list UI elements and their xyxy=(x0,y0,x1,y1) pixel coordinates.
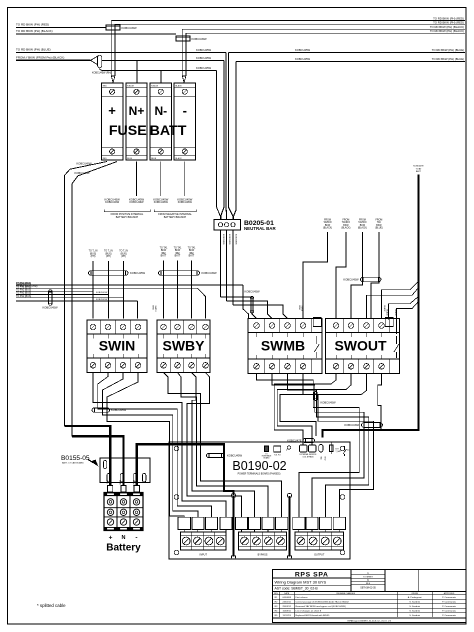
svg-text:SWIN: SWIN xyxy=(99,338,136,354)
svg-text:TO RD BKW (PH) (BLUE): TO RD BKW (PH) (BLUE) xyxy=(16,48,51,52)
wires TO T_IN down to SWIN poles 1-3 xyxy=(92,261,94,319)
svg-text:(BLUE): (BLUE) xyxy=(375,228,383,230)
svg-text:(BUS): (BUS) xyxy=(90,253,96,255)
wire SWOUT pole4 jog down to thick line xyxy=(378,374,382,430)
svg-text:KOBCU45W: KOBCU45W xyxy=(196,66,212,70)
svg-text:KOBCU45W: KOBCU45W xyxy=(295,48,311,52)
svg-text:BLACK: BLACK xyxy=(175,84,182,87)
taper into FUSE - terminal xyxy=(182,76,186,83)
title block outline xyxy=(273,570,467,623)
contactor SWIN body xyxy=(87,320,147,373)
svg-text:First release: First release xyxy=(296,596,309,599)
wire SWOUT pole1 to bypass coil box 1 xyxy=(274,374,336,446)
svg-text:TO AT: TO AT xyxy=(416,167,423,170)
svg-text:TO RD BKW (PH) (BLACK): TO RD BKW (PH) (BLACK) xyxy=(16,29,53,33)
svg-text:KOBCU45W: KOBCU45W xyxy=(295,57,311,61)
svg-text:OUTPUT: OUTPUT xyxy=(314,554,325,557)
wire TAVIDO 2 to SWOUT pole 1 xyxy=(336,232,346,319)
svg-text:BLUE: BLUE xyxy=(151,158,157,160)
wire blue upper corner down to neutral bar xyxy=(225,52,228,219)
svg-text:KOBCU45W: KOBCU45W xyxy=(196,56,212,60)
terminal strip INPUT xyxy=(181,532,227,550)
svg-text:TO TA1: TO TA1 xyxy=(160,247,169,250)
bracket FROM POSITIVE INTERNAL BATTERY BRANCH xyxy=(104,210,150,212)
svg-text:TO RD BKW (PH) (BLACK): TO RD BKW (PH) (BLACK) xyxy=(430,29,464,33)
wire SWIN pole1 to INPUT square 4 xyxy=(93,373,226,518)
taper into FUSE + terminal xyxy=(111,76,115,83)
svg-text:N: N xyxy=(122,535,126,541)
title block header cell lines xyxy=(350,570,352,592)
wire SWOUT pole2 to bypass coil box 2 xyxy=(277,374,351,446)
wire SWBY pole1 to BYPASS square 4 xyxy=(164,373,282,518)
splice taper KOBCU45W on FROM BKW wire xyxy=(91,56,98,64)
terminal strip BYPASS xyxy=(239,532,287,550)
aux contact symbol inside SWMB xyxy=(314,336,319,358)
board B0155 outline xyxy=(100,458,150,483)
thick wire battery negative from board xyxy=(137,444,234,495)
svg-text:FUSE: FUSE xyxy=(109,123,147,139)
svg-text:BKW: BKW xyxy=(376,225,382,227)
svg-text:(RE): (RE) xyxy=(161,253,166,255)
wire black pair top run to right border xyxy=(182,28,465,30)
connector KOBCU45W box on red pair xyxy=(106,25,120,30)
svg-text:BLUE: BLUE xyxy=(119,480,121,486)
svg-text:I:\SPA\Diagrams\SBMST_30_02-B.: I:\SPA\Diagrams\SBMST_30_02-B.vsd - shee… xyxy=(347,620,391,623)
svg-text:BATTERY BRANCH: BATTERY BRANCH xyxy=(116,216,139,219)
svg-text:S. Sandrini: S. Sandrini xyxy=(409,605,420,608)
wire SWMB pole4 staircase to OUTPUT square 4 xyxy=(303,374,373,518)
wire SWOUT pole3 into board top xyxy=(280,374,366,437)
components external service coil bypass xyxy=(300,445,308,452)
svg-text:TAVIDO: TAVIDO xyxy=(342,221,350,224)
svg-text:KOBCU45W: KOBCU45W xyxy=(222,234,224,245)
wire SWIN pole4 to INPUT square 1 xyxy=(107,373,184,518)
wire SWMB pole2 staircase to OUTPUT square 2 xyxy=(272,374,364,518)
contactor SWOUT body xyxy=(326,319,400,374)
svg-text:TO RD BKW (PH) (BLUE): TO RD BKW (PH) (BLUE) xyxy=(432,48,464,52)
revision table xyxy=(273,592,467,619)
svg-text:R.S. P.V.: R.S. P.V. xyxy=(274,455,281,457)
svg-text:KOBCU45W: KOBCU45W xyxy=(321,400,337,404)
svg-text:KOBCU46W: KOBCU46W xyxy=(154,201,169,204)
thick bus bar left on board xyxy=(232,496,234,557)
svg-text:BLACK: BLACK xyxy=(175,157,182,160)
svg-text:B0155-05: B0155-05 xyxy=(61,455,90,462)
svg-text:KOBCU45W: KOBCU45W xyxy=(96,299,107,301)
svg-text:(BLACK): (BLACK) xyxy=(341,227,350,230)
svg-text:TAVIDO: TAVIDO xyxy=(358,221,366,224)
connector KOBCU45W vertical on SWMB feed xyxy=(250,297,253,314)
wire TO RD BKW blue bus upper xyxy=(16,51,226,53)
wire tap from KOB0007E to SWOUT pole 4 xyxy=(382,282,419,319)
svg-text:KOBCU45W: KOBCU45W xyxy=(227,454,243,458)
svg-text:TAV: TAV xyxy=(377,221,382,224)
connector KOBCU45W horizontal on T_IN wires xyxy=(89,271,129,276)
svg-text:P. Cammarota: P. Cammarota xyxy=(442,614,457,617)
svg-text:BATT. CT CAR BOARD: BATT. CT CAR BOARD xyxy=(62,462,84,465)
terminal group BYPASS squares xyxy=(235,517,287,529)
battery terminal block 3x3 xyxy=(104,493,143,531)
svg-text:KOBCU45W (RH): KOBCU45W (RH) xyxy=(92,71,111,74)
wire blue right segment upper xyxy=(229,51,466,53)
svg-text:KOBCU46W: KOBCU46W xyxy=(105,201,120,204)
svg-text:P. Cammarota: P. Cammarota xyxy=(442,601,457,604)
svg-text:15/11/13: 15/11/13 xyxy=(283,615,292,617)
wires TO TA1 branch down to SWBY xyxy=(163,261,165,319)
svg-text:BATT: BATT xyxy=(161,255,167,258)
connector KOBCU45W box on black pair xyxy=(176,36,190,41)
svg-text:BKW: BKW xyxy=(323,457,325,461)
wire SWMB pole3 staircase to OUTPUT square 3 xyxy=(288,374,369,518)
wire SWMB pole1 staircase to OUTPUT square 1 xyxy=(257,374,360,518)
svg-text:BKW: BKW xyxy=(325,225,331,227)
svg-text:KOBCU45W: KOBCU45W xyxy=(122,26,138,30)
svg-text:B0190-02: B0190-02 xyxy=(232,459,286,473)
svg-text:P. Cammarota: P. Cammarota xyxy=(442,596,457,599)
svg-text:FROM: FROM xyxy=(359,220,366,222)
fuse F3 (N-) body xyxy=(150,83,172,160)
svg-text:T_BAT: T_BAT xyxy=(336,450,341,453)
wire tap from KOB0007E to SWOUT aux rect xyxy=(388,296,418,319)
fuse F1 (+) body xyxy=(102,83,123,160)
svg-text:Wiring Diagram MST 30 BYS: Wiring Diagram MST 30 BYS xyxy=(275,580,327,585)
wire from F3 bottom down xyxy=(160,162,162,197)
wire pair black vertical to FUSE - block xyxy=(181,29,183,76)
svg-text:BKW: BKW xyxy=(343,225,349,227)
bus wire 6 corner down to SWIN pole 4 xyxy=(136,301,138,319)
aux contact symbol inside SWOUT xyxy=(394,336,399,358)
svg-text:TO T_IN: TO T_IN xyxy=(119,251,128,253)
svg-text:BOARD: BOARD xyxy=(263,457,270,460)
revision rows text xyxy=(275,596,457,617)
B0155 pins bottom xyxy=(107,474,110,483)
wire SWBY pole2 to BYPASS square 3 xyxy=(178,373,269,518)
svg-text:KOBCU45W: KOBCU45W xyxy=(202,271,218,275)
svg-text:(RE): (RE) xyxy=(175,253,180,255)
wires below neutral bar with rotated labels xyxy=(220,230,222,297)
svg-text:4,5: 4,5 xyxy=(347,449,349,451)
svg-text:Correct passage of (KOBCU45W): Correct passage of (KOBCU45W) diode TA1 … xyxy=(296,601,350,604)
terminal strip OUTPUT xyxy=(295,532,344,550)
svg-text:S. Sandrini: S. Sandrini xyxy=(409,610,420,613)
svg-text:NEUTRAL BAR: NEUTRAL BAR xyxy=(244,226,276,231)
svg-text:SBT-0M-02-05: SBT-0M-02-05 xyxy=(360,587,376,590)
svg-text:FILE: FILE xyxy=(366,583,371,585)
wire tap from KOB0007E to aux contact xyxy=(396,302,418,335)
wire N- fuse feed xyxy=(160,70,162,83)
wire blue right segment down to neutral bar xyxy=(229,52,233,219)
svg-text:KOBCU45W: KOBCU45W xyxy=(111,408,127,412)
board component key symbol xyxy=(287,446,290,449)
svg-text:KOBCU45W: KOBCU45W xyxy=(130,271,146,275)
wire pair red vertical to FUSE + block xyxy=(110,21,112,77)
svg-text:-: - xyxy=(183,103,187,118)
connector KOBCU45W vertical on left bus xyxy=(49,290,52,306)
aux terminal rect on SWMB top xyxy=(313,318,321,327)
svg-text:KOBCU45W: KOBCU45W xyxy=(235,234,237,245)
svg-text:TO RD BKW (PH) (RED): TO RD BKW (PH) (RED) xyxy=(433,20,464,24)
svg-text:RED: RED xyxy=(103,158,108,160)
svg-text:BKW: BKW xyxy=(189,250,195,252)
wire N- feed down to neutral bar xyxy=(217,70,221,219)
svg-text:RELEASE CHANGES: RELEASE CHANGES xyxy=(336,592,355,595)
svg-text:TO RD BKW (PH) (RED): TO RD BKW (PH) (RED) xyxy=(16,23,49,27)
svg-text:-: - xyxy=(135,535,137,542)
wire SWIN pole2 to INPUT square 3 xyxy=(98,373,212,518)
svg-text:(BUS): (BUS) xyxy=(120,253,126,255)
svg-text:FROM // BKW (FROM Pw) (BLACK): FROM // BKW (FROM Pw) (BLACK) xyxy=(16,56,64,60)
wire blue right segment lower xyxy=(236,61,465,63)
bus wire 1 to SWMB pole 1 (crossing) xyxy=(243,285,249,319)
contactor SWMB body xyxy=(248,319,322,374)
svg-text:BLACK: BLACK xyxy=(132,480,135,487)
thick wire battery positive corner xyxy=(64,426,110,486)
svg-text:KOBCU45W: KOBCU45W xyxy=(343,278,359,282)
svg-text:KOBCU45W: KOBCU45W xyxy=(42,305,58,309)
connector KOBCU45W across board feed verticals xyxy=(362,423,383,428)
svg-text:SWMB: SWMB xyxy=(301,306,303,312)
wire from F1 bottom to left vertical B xyxy=(72,162,117,437)
svg-text:KOBCU45W: KOBCU45W xyxy=(76,161,92,165)
wire N- branch from splice xyxy=(100,68,161,71)
svg-text:Replaced B0155 board with B055: Replaced B0155 board with B0555 xyxy=(296,614,331,617)
svg-text:BLACK: BLACK xyxy=(383,306,386,313)
svg-text:BKW: BKW xyxy=(360,225,366,227)
fuse F2 (N+) body xyxy=(126,83,147,160)
staircase from neutral bar to SWMB terminals xyxy=(221,297,257,319)
splice connector vertical oval xyxy=(98,55,102,68)
svg-text:KOBCU45W: KOBCU45W xyxy=(244,290,260,294)
svg-text:(PH): (PH) xyxy=(106,256,111,258)
connector KOBCU45W horizontal on TAV wires xyxy=(361,277,382,282)
fuse F4 (-) body xyxy=(174,83,195,160)
svg-text:List of changes on sheet 8: List of changes on sheet 8 xyxy=(296,610,322,613)
svg-text:TO T_IN: TO T_IN xyxy=(104,251,113,253)
svg-text:KOBCU45W: KOBCU45W xyxy=(228,234,230,245)
svg-text:(PH): (PH) xyxy=(121,256,126,258)
svg-text:BATTERY BRANCH: BATTERY BRANCH xyxy=(164,216,187,219)
svg-text:(BUS): (BUS) xyxy=(105,253,111,255)
svg-text:TO T_IN: TO T_IN xyxy=(89,251,98,253)
svg-text:BATT: BATT xyxy=(189,255,195,258)
svg-text:APPROVED: APPROVED xyxy=(444,592,455,595)
connector KOBCU45W vertical on SWMB harness xyxy=(314,392,317,401)
svg-text:RED: RED xyxy=(103,85,108,87)
svg-text:BKW: BKW xyxy=(161,250,167,252)
svg-text:KOBCU45W: KOBCU45W xyxy=(196,48,212,52)
svg-text:KOBCU45W: KOBCU45W xyxy=(74,171,90,175)
svg-text:(PH): (PH) xyxy=(91,256,96,258)
wire TAV blue to SWOUT pole 3-4 region xyxy=(371,232,379,319)
svg-text:(RE): (RE) xyxy=(189,253,194,255)
wire from F1 bottom to left vertical A xyxy=(64,162,107,427)
svg-text:TAVIDO: TAVIDO xyxy=(323,221,331,224)
svg-text:N-: N- xyxy=(154,104,167,118)
svg-text:BKW: BKW xyxy=(298,306,300,310)
svg-text:RED: RED xyxy=(105,480,107,485)
svg-text:N+: N+ xyxy=(129,104,145,118)
connector KOBCU47E into board xyxy=(303,438,315,442)
battery lug 2 xyxy=(121,486,126,493)
connector KOBCU45W left top of board xyxy=(207,453,225,457)
svg-text:FROM: FROM xyxy=(376,220,383,222)
svg-text:KOBCU45W: KOBCU45W xyxy=(344,423,360,427)
svg-text:RPS SPA: RPS SPA xyxy=(295,572,329,579)
wire SWBY pole3 to BYPASS square 2 xyxy=(192,373,255,518)
svg-text:Removed TAV BKW from bypass co: Removed TAV BKW from bypass coil (KOBCU4… xyxy=(296,605,346,608)
svg-text:BATT: BATT xyxy=(150,123,187,139)
bracket FROM NEGATIVE INTERNAL BATTERY BRANCH xyxy=(154,210,196,212)
battery lug 3 xyxy=(134,486,139,493)
svg-text:BATT: BATT xyxy=(175,255,181,258)
svg-text:POWER TERMINALS BOARD (PHASES): POWER TERMINALS BOARD (PHASES) xyxy=(238,472,281,475)
svg-text:ORIGIN: ORIGIN xyxy=(411,593,418,595)
svg-text:TO RD BKW (PH) (BLUE): TO RD BKW (PH) (BLUE) xyxy=(432,57,464,61)
svg-text:N BLUE: N BLUE xyxy=(127,85,135,87)
component fuse EXT T_BAT xyxy=(330,443,332,455)
svg-text:(BLACK): (BLACK) xyxy=(358,227,367,230)
svg-text:AST code: SBMST_30_02-B: AST code: SBMST_30_02-B xyxy=(275,587,319,591)
terminal group INPUT squares xyxy=(178,517,232,529)
svg-text:* splitted cable: * splitted cable xyxy=(37,603,66,608)
svg-text:29/03/12: 29/03/12 xyxy=(282,606,291,608)
svg-text:+: + xyxy=(109,535,113,542)
thick bus bar right on board xyxy=(288,496,290,557)
neutral bar B0205-01 xyxy=(214,220,241,231)
svg-text:TA1: TA1 xyxy=(319,457,322,460)
svg-text:COIL BYPASS: COIL BYPASS xyxy=(303,456,315,459)
svg-text:TO TA1: TO TA1 xyxy=(188,247,197,250)
svg-text:N BLUE: N BLUE xyxy=(151,85,159,87)
component switch 4,5 xyxy=(344,446,346,450)
svg-text:+: + xyxy=(108,103,116,118)
wire blue right lower segment down to neutral bar xyxy=(233,62,236,220)
svg-text:BYPASS: BYPASS xyxy=(258,554,268,557)
wire blue lower corner down to neutral bar xyxy=(221,60,224,219)
svg-text:BKW: BKW xyxy=(175,250,181,252)
wire TAVIDO 1 to SWMB pole 4 xyxy=(303,232,328,319)
board component RS PV square xyxy=(274,446,281,452)
wire TO RD BKW red from left border to connector KOBCU45W xyxy=(16,26,106,28)
svg-text:04/04/08: 04/04/08 xyxy=(282,597,291,599)
B0155 pin top-left xyxy=(104,461,107,469)
svg-text:KOB0007E: KOB0007E xyxy=(413,166,424,168)
wire TO RD BKW black from left border to connector xyxy=(16,33,176,35)
contactor SWBY body xyxy=(157,320,210,373)
svg-text:S. Sandrini: S. Sandrini xyxy=(409,614,420,617)
svg-text:FROM: FROM xyxy=(343,220,350,222)
svg-text:24/02/11: 24/02/11 xyxy=(283,602,292,604)
thick wire KOB0007E down right side and into board xyxy=(323,175,419,438)
wire from F2 bottom down xyxy=(136,162,138,197)
svg-text:TO TA1: TO TA1 xyxy=(174,247,183,250)
svg-text:SWMB: SWMB xyxy=(261,337,305,353)
thick wire battery neutral corner xyxy=(72,436,124,486)
svg-text:10/08/11: 10/08/11 xyxy=(283,611,292,613)
svg-text:KOBCU46W: KOBCU46W xyxy=(129,201,144,204)
svg-text:SWBY1: SWBY1 xyxy=(154,306,156,312)
svg-text:Battery: Battery xyxy=(106,543,141,554)
svg-text:SWBY: SWBY xyxy=(163,338,206,354)
connector KOBCU45W on SWIN harness xyxy=(92,408,110,412)
svg-text:INPUT: INPUT xyxy=(200,554,208,557)
wire blue bus lower from splice to corner xyxy=(102,59,224,61)
wire tap from KOB0007E to SWOUT pole 3 xyxy=(367,288,419,319)
board component interface connector xyxy=(265,446,269,452)
svg-text:P. Cammarota: P. Cammarota xyxy=(442,610,457,613)
wire FROM BKW black thick to splice xyxy=(16,59,91,61)
board corner screw holes xyxy=(174,446,179,451)
svg-text:BLUE: BLUE xyxy=(127,158,133,160)
wire SWBY pole4 to BYPASS square 1 xyxy=(187,373,242,518)
wire SWIN pole3 to INPUT square 2 xyxy=(103,373,198,518)
svg-text:BLACK: BLACK xyxy=(394,310,397,317)
terminal group OUTPUT squares xyxy=(293,517,346,529)
svg-text:BKW: BKW xyxy=(152,306,154,310)
component TA1 vertical xyxy=(319,445,323,453)
svg-text:KOBCU46W: KOBCU46W xyxy=(178,201,193,204)
svg-text:A. Pedergnani: A. Pedergnani xyxy=(408,596,422,599)
svg-text:KOBCU45W: KOBCU45W xyxy=(192,37,208,41)
wire TAVIDO 3 to SWOUT pole 2 xyxy=(351,232,362,319)
aux terminal rect on SWOUT top xyxy=(385,318,393,327)
wire red pair top run to right border xyxy=(111,20,465,22)
svg-text:BATT: BATT xyxy=(416,170,422,173)
svg-text:KOBCU45W: KOBCU45W xyxy=(96,292,107,294)
svg-text:DATE: DATE xyxy=(284,592,290,595)
svg-text:SWOUT: SWOUT xyxy=(334,337,387,353)
svg-text:(BLACK): (BLACK) xyxy=(323,227,332,230)
svg-text:FROM: FROM xyxy=(324,220,331,222)
svg-text:S. Sandrini: S. Sandrini xyxy=(409,601,420,604)
wire from F4 bottom down xyxy=(184,162,186,197)
battery lug 1 with rotated label xyxy=(108,486,113,493)
connector KOBCU45W horizontal on TA1 wires xyxy=(159,271,200,276)
board B0190 outline xyxy=(169,442,350,559)
bus wire 2 diagonal to SWBY pole 4 xyxy=(198,288,206,318)
svg-text:P. Cammarota: P. Cammarota xyxy=(442,605,457,608)
wire N+ fuse feed from blue bus xyxy=(136,60,138,83)
